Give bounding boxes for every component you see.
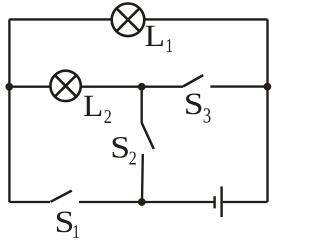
wire branch: switch S2 to node D <box>141 154 144 202</box>
wire left vertical <box>8 19 10 202</box>
label L2 <box>83 88 112 128</box>
lamp L2 <box>50 71 80 101</box>
svg-text:S: S <box>110 130 130 165</box>
wire bottom: battery to bottom-right corner <box>223 201 268 203</box>
wire right vertical <box>266 19 268 202</box>
svg-text:S: S <box>184 86 204 121</box>
label S1 <box>55 204 80 243</box>
lamp L1 <box>112 4 145 37</box>
node D (bottom junction) <box>138 198 146 206</box>
wire middle row: switch S3 to node C <box>210 85 267 87</box>
switch S2 <box>142 123 154 149</box>
svg-text:1: 1 <box>166 36 174 57</box>
wire middle row: lamp L2 to switch S3 <box>81 86 183 88</box>
label S2 <box>110 130 136 170</box>
svg-text:2: 2 <box>104 107 112 128</box>
node B (middle junction) <box>138 83 146 91</box>
label L1 <box>145 18 174 57</box>
node A (left junction) <box>5 83 13 91</box>
svg-text:S: S <box>55 204 75 238</box>
svg-text:2: 2 <box>129 149 137 170</box>
wire branch: node B to switch S2 <box>141 87 143 123</box>
wire top-right: lamp L1 to top-right corner <box>144 18 267 20</box>
battery BT1 <box>215 186 222 217</box>
label S3 <box>184 86 211 127</box>
svg-text:1: 1 <box>72 222 80 238</box>
node C (right junction) <box>264 83 272 91</box>
svg-text:L: L <box>145 18 165 53</box>
switch S1 <box>51 191 72 202</box>
wire bottom: corner to switch S1 <box>9 201 50 203</box>
svg-text:3: 3 <box>203 104 211 128</box>
svg-text:L: L <box>83 88 103 123</box>
wire bottom: switch S1 to node D <box>79 201 215 203</box>
wire top-left: corner to lamp L1 <box>9 18 112 20</box>
wire middle row: node A to lamp L2 <box>9 86 50 88</box>
switch S3 <box>183 75 203 86</box>
